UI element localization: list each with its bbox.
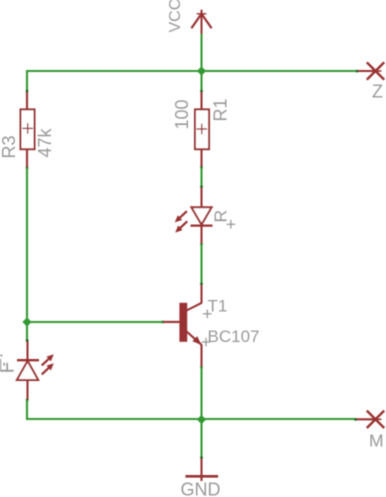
node Z [356, 62, 384, 101]
LED LED1 [0, 339, 56, 401]
wire [27, 321, 162, 323]
svg-text:M: M [369, 431, 384, 451]
power VCC [167, 0, 212, 34]
svg-text:100: 100 [172, 99, 192, 129]
wire [26, 168, 28, 322]
wire [200, 244, 202, 284]
wire [200, 367, 202, 420]
ground GND [181, 456, 221, 497]
wire [200, 168, 202, 188]
transistor T1 [161, 283, 259, 369]
junction [22, 317, 31, 326]
svg-text:Z: Z [372, 82, 383, 102]
svg-text:47k: 47k [35, 127, 55, 157]
junction [197, 415, 206, 424]
wire [200, 33, 202, 71]
wire [26, 70, 357, 72]
LED R [173, 186, 236, 246]
wire [27, 400, 356, 419]
svg-text:R: R [211, 210, 231, 223]
svg-text:R1: R1 [211, 98, 231, 121]
wire [26, 70, 28, 91]
resistor R1 [172, 90, 231, 169]
wire [200, 71, 202, 92]
node M [354, 411, 384, 451]
resistor R3 [0, 90, 55, 169]
svg-text:BC107: BC107 [208, 327, 260, 346]
junction [197, 66, 206, 75]
svg-text:GND: GND [181, 479, 221, 497]
wire [200, 420, 202, 458]
svg-text:T1: T1 [208, 297, 228, 316]
svg-text:VCC: VCC [167, 0, 184, 33]
svg-text:R3: R3 [0, 135, 19, 158]
wire [26, 322, 28, 341]
